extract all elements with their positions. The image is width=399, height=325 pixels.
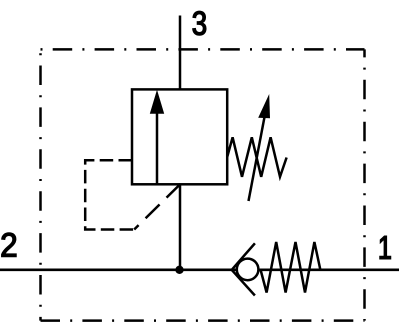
label 2 <box>2 233 16 257</box>
enclosure dash-dot frame <box>41 49 365 320</box>
check valve spring <box>261 242 321 293</box>
main line port 2 to port 1 <box>0 268 399 271</box>
label 3 <box>193 11 206 35</box>
check valve seat <box>232 243 255 295</box>
junction node <box>175 266 183 274</box>
dashed pilot control line <box>85 160 180 229</box>
label 1 <box>380 236 391 259</box>
adjustment arrow through spring <box>249 94 271 201</box>
pressure regulator body U1 <box>132 89 227 184</box>
flow arrow inside regulator <box>150 90 164 184</box>
adjustable spring <box>227 137 286 177</box>
check valve poppet circle <box>237 259 259 281</box>
port 3 pilot line (top) <box>179 16 182 91</box>
wire: regulator outlet to main line <box>179 184 182 270</box>
